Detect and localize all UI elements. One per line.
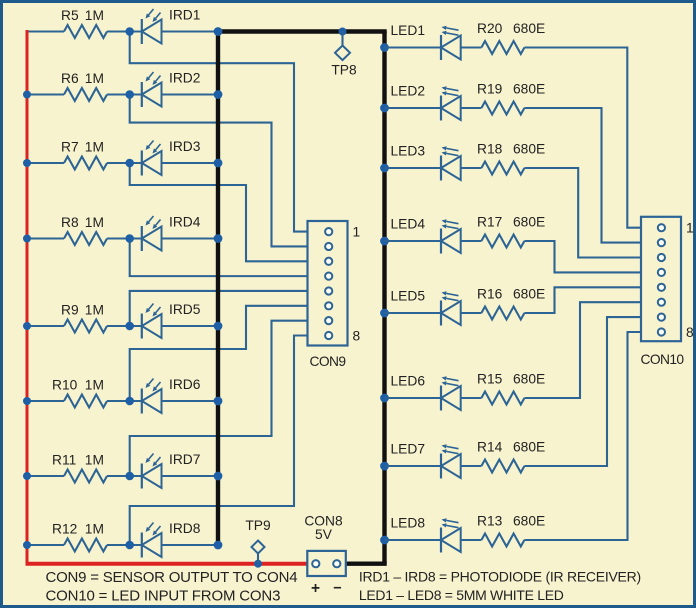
svg-text:R18: R18 <box>477 142 503 157</box>
svg-text:680E: 680E <box>513 372 545 387</box>
svg-text:1: 1 <box>686 221 694 236</box>
svg-text:IRD1 – IRD8 = PHOTODIODE (IR R: IRD1 – IRD8 = PHOTODIODE (IR RECEIVER) <box>359 569 641 585</box>
svg-text:R13: R13 <box>477 514 503 529</box>
svg-text:1M: 1M <box>85 71 104 86</box>
svg-text:680E: 680E <box>513 440 545 455</box>
svg-text:1M: 1M <box>85 8 104 23</box>
svg-text:LED4: LED4 <box>391 217 426 232</box>
svg-text:IRD5: IRD5 <box>169 302 201 317</box>
svg-text:IRD8: IRD8 <box>169 521 201 536</box>
svg-text:LED6: LED6 <box>391 374 426 389</box>
svg-text:IRD1: IRD1 <box>169 8 200 23</box>
svg-text:LED2: LED2 <box>391 84 426 99</box>
svg-text:CON9: CON9 <box>310 354 347 369</box>
svg-text:680E: 680E <box>513 142 545 157</box>
svg-text:LED1: LED1 <box>391 23 426 38</box>
svg-text:−: − <box>333 581 341 597</box>
svg-text:R8: R8 <box>61 215 79 230</box>
svg-text:LED5: LED5 <box>391 289 426 304</box>
svg-text:R9: R9 <box>61 303 79 318</box>
svg-text:IRD3: IRD3 <box>169 139 201 154</box>
svg-text:R16: R16 <box>477 287 503 302</box>
svg-text:CON10 = LED INPUT FROM CON3: CON10 = LED INPUT FROM CON3 <box>46 588 281 605</box>
svg-text:IRD2: IRD2 <box>169 71 200 86</box>
svg-text:R15: R15 <box>477 372 503 387</box>
svg-text:IRD7: IRD7 <box>169 452 200 467</box>
svg-text:TP9: TP9 <box>245 518 271 533</box>
svg-text:R12: R12 <box>52 522 77 537</box>
svg-text:680E: 680E <box>513 514 545 529</box>
svg-text:1M: 1M <box>85 140 104 155</box>
svg-text:LED3: LED3 <box>391 144 426 159</box>
svg-text:IRD4: IRD4 <box>169 215 201 230</box>
svg-text:R7: R7 <box>61 140 79 155</box>
svg-text:R11: R11 <box>52 453 76 468</box>
svg-text:R10: R10 <box>52 378 78 393</box>
svg-text:1M: 1M <box>85 453 104 468</box>
svg-text:680E: 680E <box>513 82 545 97</box>
svg-text:1M: 1M <box>85 215 104 230</box>
svg-text:+: + <box>311 580 320 597</box>
svg-text:R6: R6 <box>61 71 79 86</box>
svg-text:1M: 1M <box>85 303 104 318</box>
svg-text:680E: 680E <box>513 215 545 230</box>
svg-text:8: 8 <box>686 325 694 340</box>
svg-text:CON9 = SENSOR OUTPUT TO CON4: CON9 = SENSOR OUTPUT TO CON4 <box>46 569 298 586</box>
svg-text:LED1 – LED8 = 5MM WHITE LED: LED1 – LED8 = 5MM WHITE LED <box>359 587 564 603</box>
svg-text:R19: R19 <box>477 82 503 97</box>
svg-text:5V: 5V <box>315 527 333 542</box>
svg-text:LED8: LED8 <box>391 516 426 531</box>
svg-text:1: 1 <box>353 225 361 240</box>
svg-text:LED7: LED7 <box>391 442 426 457</box>
svg-text:R5: R5 <box>61 8 79 23</box>
svg-text:TP8: TP8 <box>331 63 357 78</box>
svg-text:1M: 1M <box>85 378 104 393</box>
svg-text:1M: 1M <box>85 522 104 537</box>
svg-text:CON10: CON10 <box>640 352 684 367</box>
svg-text:R17: R17 <box>477 215 502 230</box>
svg-text:8: 8 <box>353 329 361 344</box>
svg-text:R14: R14 <box>477 440 503 455</box>
svg-text:R20: R20 <box>477 21 503 36</box>
svg-text:680E: 680E <box>513 287 545 302</box>
svg-text:IRD6: IRD6 <box>169 377 201 392</box>
svg-text:680E: 680E <box>513 21 545 36</box>
